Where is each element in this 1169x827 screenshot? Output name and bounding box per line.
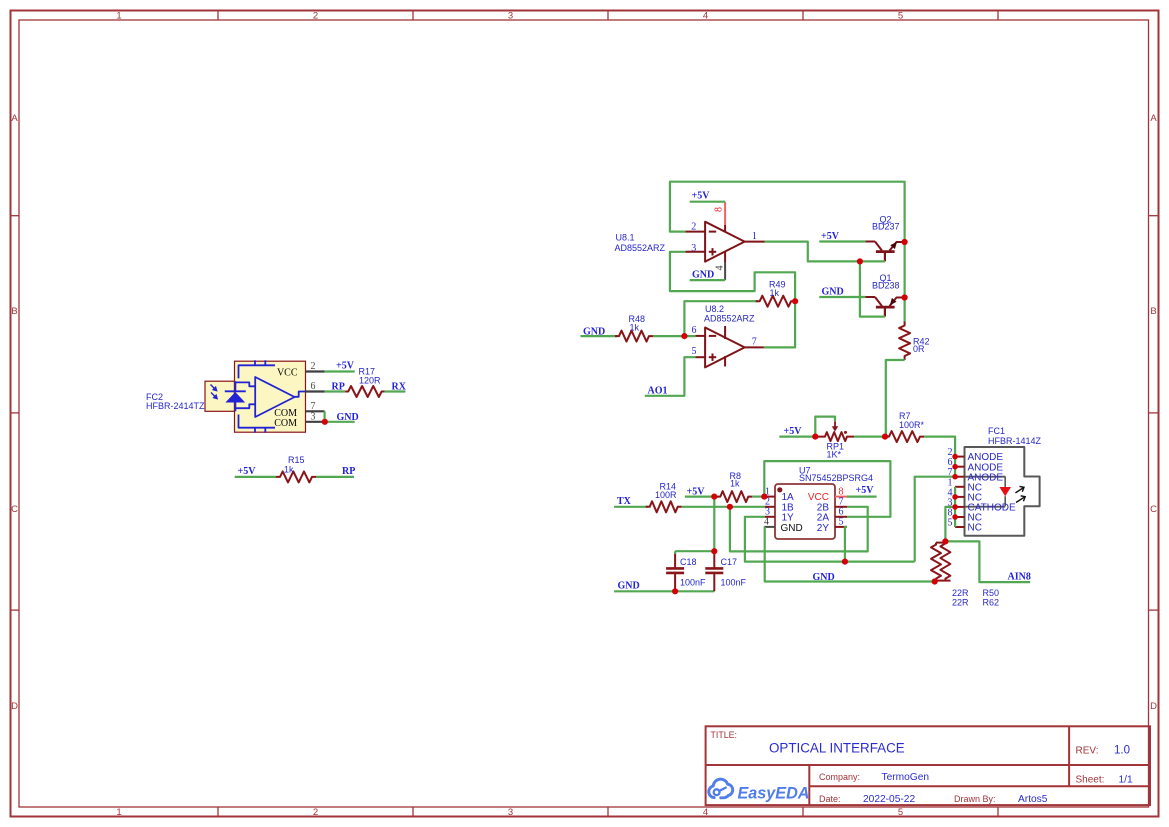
svg-text:4: 4 (703, 807, 708, 818)
FC1 pin 8 NC (955, 516, 964, 518)
U7 pin 7 stub (835, 506, 847, 508)
svg-text:22R: 22R (952, 598, 969, 608)
U8.1 pin 8 power stub (724, 202, 726, 225)
wire 1A to 2A over the top (764, 461, 890, 517)
svg-text:+5V: +5V (336, 360, 355, 371)
resistor R7 100R* (885, 431, 924, 442)
svg-text:1k: 1k (284, 465, 294, 475)
junction +5V decoupling node (711, 494, 717, 500)
wire R15 to RP (316, 476, 354, 478)
potentiometer RP1 1K* (818, 432, 854, 441)
U8.2 pin 6 stub (695, 335, 705, 337)
svg-text:+5V: +5V (821, 231, 840, 242)
capacitor C18 100nF (674, 553, 676, 568)
wire +5V to U8.1 pin 8 (690, 201, 725, 203)
svg-text:100nF: 100nF (680, 578, 706, 588)
svg-text:COM: COM (274, 418, 297, 429)
svg-text:2A: 2A (817, 512, 830, 523)
FC1 pin 3 CATHODE (955, 506, 964, 508)
svg-text:100R: 100R (655, 490, 677, 500)
FC1 pin 4 NC (955, 496, 964, 498)
U8.2 pin 5 stub (695, 356, 705, 358)
svg-text:C17: C17 (721, 557, 738, 567)
wire +5V to Q2 base (819, 240, 865, 242)
optical receiver FC2 HFBR-2414TZ (205, 360, 306, 432)
svg-text:R62: R62 (983, 598, 1000, 608)
resistor R42 0R (899, 322, 910, 360)
svg-text:5: 5 (898, 807, 903, 818)
svg-text:OPTICAL INTERFACE: OPTICAL INTERFACE (769, 741, 905, 756)
svg-text:100nF: 100nF (721, 578, 747, 588)
svg-text:8: 8 (713, 207, 724, 212)
svg-text:RP: RP (332, 381, 345, 392)
wire RP1 wiper loop (815, 417, 835, 437)
svg-text:6: 6 (692, 325, 697, 336)
resistor R8 1k (716, 491, 752, 502)
svg-text:HFBR-1414Z: HFBR-1414Z (988, 436, 1042, 446)
op-amp U8.2 AD8552ARZ (705, 326, 745, 367)
svg-text:1k: 1k (770, 288, 780, 298)
svg-text:Date:: Date: (819, 794, 841, 804)
svg-text:Drawn By:: Drawn By: (954, 794, 996, 804)
resistor R49 1k (756, 296, 795, 307)
wire R8 to U7 pin 1 (752, 496, 765, 498)
svg-text:GND: GND (822, 286, 844, 297)
junction U8.2 inverting input (681, 333, 687, 339)
U7 pin 6 stub (835, 516, 847, 518)
wire cathode to sense resistors (945, 507, 955, 542)
svg-text:3: 3 (691, 243, 696, 254)
IC U7 SN75452BPSRG4 (775, 484, 835, 539)
junction TX node (727, 504, 733, 510)
U8.1 pin 2 stub (685, 231, 705, 233)
FC2 pin 3 (306, 421, 325, 423)
svg-text:GND: GND (337, 412, 359, 423)
svg-text:TITLE:: TITLE: (711, 730, 737, 740)
wire FC2 pin2 to +5V (325, 370, 355, 372)
svg-text:BD237: BD237 (872, 222, 900, 232)
svg-text:+5V: +5V (784, 426, 803, 437)
FC2 pin 6 (306, 390, 325, 392)
svg-text:+5V: +5V (856, 485, 875, 496)
U7 pin 4 stub (765, 526, 775, 528)
junction R7 left node (882, 434, 888, 440)
svg-text:VCC: VCC (277, 367, 298, 378)
wire GND to Q1 base (819, 296, 865, 298)
U8.1 pin 4 power stub (724, 252, 726, 262)
svg-text:1K*: 1K* (827, 449, 842, 459)
svg-text:1.0: 1.0 (1114, 745, 1130, 757)
wire feedback to R49 (684, 301, 757, 336)
svg-text:B: B (1150, 306, 1156, 317)
svg-text:120R: 120R (359, 376, 381, 386)
svg-text:D: D (11, 701, 18, 712)
svg-text:1: 1 (116, 807, 121, 818)
junction RP1 left (812, 434, 818, 440)
wire U7 pin 8 to +5V (847, 496, 877, 498)
wire sense node to AIN8 (945, 541, 1030, 582)
svg-text:REV:: REV: (1076, 746, 1099, 757)
svg-text:TX: TX (617, 496, 632, 507)
wire U7 pin 5 2Y down (845, 527, 847, 562)
wire +5V to R8 (685, 496, 718, 498)
resistor R15 1k (276, 471, 316, 482)
svg-text:BD238: BD238 (872, 281, 900, 291)
svg-text:B: B (11, 306, 17, 317)
svg-text:U8.1: U8.1 (616, 233, 635, 243)
svg-text:1k: 1k (730, 479, 740, 489)
FC2 pin 7 (306, 410, 325, 412)
svg-text:22R: 22R (952, 588, 969, 598)
svg-text:C: C (11, 504, 18, 515)
svg-text:1Y: 1Y (782, 512, 795, 523)
svg-text:100R*: 100R* (899, 420, 925, 430)
svg-text:2: 2 (311, 361, 316, 372)
wire emitter rail (903, 242, 905, 322)
svg-text:C: C (1150, 504, 1157, 515)
svg-text:3: 3 (311, 412, 316, 423)
svg-text:0R: 0R (913, 344, 925, 354)
wire +5V to RP1 (779, 436, 815, 438)
wire R14 to U7 pin 2 (682, 506, 765, 508)
svg-text:1: 1 (116, 10, 121, 21)
junction output tie node (842, 559, 848, 565)
wire TX node to 2B (730, 507, 868, 552)
svg-text:1k: 1k (630, 323, 640, 333)
junction U7 pin 1 node (761, 494, 767, 500)
wire +5V node down to C17 (713, 497, 715, 553)
junction collector node (857, 258, 863, 264)
svg-text:Artos5: Artos5 (1018, 794, 1048, 805)
svg-text:RX: RX (392, 381, 407, 392)
svg-text:Sheet:: Sheet: (1076, 775, 1105, 786)
FC1 pin 2 ANODE (955, 456, 964, 458)
U7 pin 1 stub (765, 496, 775, 498)
junction Q2 emitter rail (902, 239, 908, 245)
svg-text:Company:: Company: (819, 772, 860, 782)
wire GND to R48 (581, 335, 618, 337)
svg-text:RP: RP (342, 466, 355, 477)
wire outputs to FC1 pin 7 anode (915, 477, 955, 562)
svg-text:AIN8: AIN8 (1008, 572, 1031, 583)
junction FC1 anode pins (952, 454, 958, 460)
U7 pin 3 stub (765, 516, 775, 518)
svg-text:AD8552ARZ: AD8552ARZ (704, 314, 755, 324)
wire U8.1 feedback top (670, 182, 905, 242)
svg-text:GND: GND (781, 523, 803, 534)
wire U8.1 pin 3 net (670, 252, 795, 301)
svg-text:6: 6 (311, 381, 316, 392)
junction R49 output node (792, 298, 798, 304)
wire C18 link (675, 550, 714, 552)
svg-text:+5V: +5V (238, 466, 257, 477)
svg-text:A: A (1150, 113, 1157, 124)
svg-text:3: 3 (508, 807, 513, 818)
resistor R50 22R (936, 542, 945, 544)
svg-text:2Y: 2Y (817, 523, 830, 534)
transistor Q1 BD238 (865, 297, 904, 317)
svg-text:HFBR-2414TZ: HFBR-2414TZ (146, 401, 205, 411)
resistor R17 120R (345, 386, 384, 397)
U7 pin 5 stub (835, 526, 847, 528)
svg-text:7: 7 (752, 336, 757, 347)
U8.1 pin 1 output stub (745, 241, 765, 243)
wire FC1 NC-cathode tie (954, 487, 956, 527)
wire R17 to RX (385, 390, 406, 392)
svg-text:GND: GND (692, 270, 714, 281)
junction Q1 emitter rail (902, 294, 908, 300)
svg-text:GND: GND (813, 572, 835, 583)
svg-text:AO1: AO1 (648, 385, 668, 396)
svg-text:AD8552ARZ: AD8552ARZ (615, 243, 666, 253)
FC1 pin 1 NC (955, 486, 964, 488)
wire GND to capacitors (614, 590, 714, 592)
FC1 pin 6 ANODE (955, 466, 964, 468)
FC2 pin 2 (306, 370, 325, 372)
wire FC2 pin7 to pin3 node (324, 411, 326, 422)
wire U7 pin 3 1Y down (745, 517, 915, 562)
svg-text:4: 4 (703, 10, 708, 21)
wire AO1 to U8.2 pin 5 (645, 357, 696, 396)
wire TX to R14 (614, 506, 648, 508)
transistor Q2 BD237 (865, 242, 904, 262)
svg-text:SN75452BPSRG4: SN75452BPSRG4 (799, 473, 873, 483)
svg-text:GND: GND (618, 581, 640, 592)
wire +5V to R15 (235, 476, 276, 478)
wire U7 pin 4 to GND rail (765, 527, 935, 582)
svg-text:4: 4 (715, 266, 726, 271)
wire collector node to Q1 collector (860, 261, 885, 316)
svg-text:C18: C18 (680, 557, 697, 567)
FC1 pin 7 ANODE (955, 476, 964, 478)
svg-text:TermoGen: TermoGen (882, 772, 930, 783)
FC1 pin 5 NC (955, 526, 964, 528)
wire R7 to FC1 anodes (924, 437, 955, 477)
wire R42 to R7 node (886, 360, 905, 437)
svg-text:+5V: +5V (692, 191, 711, 202)
wire FC2 pin3 to GND (325, 421, 355, 423)
svg-text:2: 2 (313, 10, 318, 21)
svg-text:5: 5 (692, 346, 697, 357)
svg-text:2: 2 (313, 807, 318, 818)
resistor R48 1k (615, 331, 653, 342)
junction sense node (942, 538, 948, 544)
junction C17 top node (711, 548, 717, 554)
svg-text:NC: NC (968, 523, 982, 534)
wire FC2 pin6 to RP (325, 390, 346, 392)
svg-text:5: 5 (948, 518, 953, 529)
optical transmitter FC1 HFBR-1414Z (965, 447, 1040, 536)
svg-text:1: 1 (752, 231, 757, 242)
svg-text:2: 2 (691, 221, 696, 232)
op-amp U8.1 AD8552ARZ (705, 222, 745, 262)
U7 pin 8 stub (835, 496, 847, 498)
U8.1 pin 3 stub (685, 251, 705, 253)
svg-text:3: 3 (508, 10, 513, 21)
title block (706, 726, 1150, 805)
wire U8.2 output to feedback node (764, 301, 795, 347)
capacitor C17 100nF (713, 551, 715, 568)
U8.2 pin 7 output stub (745, 346, 764, 348)
wire GND to U8.1 pin 4 (690, 279, 725, 281)
wire RP1 to R7 node (854, 436, 885, 438)
wire output node to collectors (765, 242, 885, 262)
junction FC2 ground node (322, 419, 328, 425)
svg-text:D: D (1150, 701, 1157, 712)
EasyEDA logo (709, 779, 810, 802)
resistor R14 100R (646, 501, 682, 512)
svg-text:R50: R50 (983, 588, 1000, 598)
svg-text:2022-05-22: 2022-05-22 (863, 794, 915, 805)
svg-text:A: A (11, 113, 18, 124)
svg-text:5: 5 (898, 10, 903, 21)
svg-text:FC1: FC1 (988, 426, 1005, 436)
junction resistor ground node (932, 578, 938, 584)
U7 pin 2 stub (765, 506, 775, 508)
svg-text:7: 7 (311, 401, 316, 412)
resistor R62 22R (940, 541, 950, 580)
svg-text:1/1: 1/1 (1119, 775, 1133, 786)
junction C18 ground node (672, 588, 678, 594)
wire R48 to U8.2 pin 6 (653, 335, 695, 337)
junction FC1 cathode pins (952, 494, 958, 500)
svg-text:5: 5 (839, 517, 844, 528)
svg-text:EasyEDA: EasyEDA (738, 784, 810, 802)
